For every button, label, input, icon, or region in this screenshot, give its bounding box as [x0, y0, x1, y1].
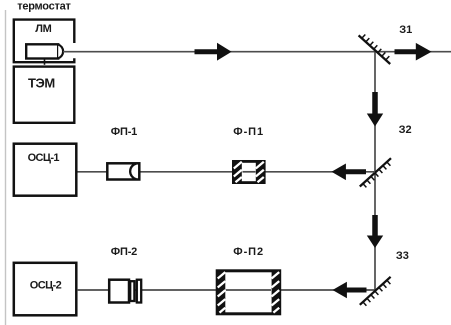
wire beam row1 horizontal [63, 51, 451, 53]
photodetector FP-2 right element [137, 280, 141, 303]
beam arrow down 2 [372, 215, 378, 236]
photodetector FP-2 mid element [130, 281, 134, 301]
interferometer F-P1 body [233, 161, 264, 182]
svg-text:ФП-2: ФП-2 [111, 246, 137, 258]
laser diode body [26, 44, 58, 58]
svg-text:ТЭМ: ТЭМ [28, 76, 55, 91]
svg-text:ОСЦ-2: ОСЦ-2 [30, 279, 62, 291]
svg-text:З2: З2 [399, 124, 412, 136]
beam arrow down 1 [372, 92, 378, 114]
interferometer F-P2 left mirror hatched [218, 271, 226, 313]
laser diode lens cap [58, 45, 63, 59]
svg-text:Ф-П1: Ф-П1 [233, 126, 264, 138]
photodetector FP-2 body [109, 280, 129, 303]
mirror Z3 [360, 277, 391, 306]
photodetector FP-1 lens arc [130, 164, 136, 180]
svg-text:ОСЦ-1: ОСЦ-1 [28, 152, 60, 164]
svg-text:З3: З3 [396, 250, 409, 262]
wire beam vertical [374, 52, 376, 290]
beam arrow left row2 [346, 169, 367, 174]
svg-text:ЛМ: ЛМ [35, 23, 51, 35]
interferometer F-P2 body [217, 271, 280, 314]
wire beam row2 horizontal [77, 171, 375, 173]
scan artifact faint vertical line [5, 10, 7, 325]
wire beam segment through F-P1 [243, 171, 256, 173]
box TEM [14, 67, 75, 123]
beam arrow mid row1 [195, 49, 219, 54]
svg-text:ФП-1: ФП-1 [111, 126, 137, 138]
box OSC-2 [14, 263, 77, 316]
svg-text:термостат: термостат [17, 0, 71, 12]
tick diode to box [44, 59, 46, 65]
wire beam row3 horizontal [77, 289, 375, 291]
svg-text:З1: З1 [399, 24, 412, 36]
box OSC-1 [14, 144, 77, 196]
beam arrow right of Z1 [395, 49, 417, 54]
wire beam segment through F-P2 [226, 289, 271, 291]
box LM (laser module enclosure with gap in right wall) [14, 20, 75, 63]
photodetector FP-1 body [107, 163, 139, 179]
interferometer F-P1 right mirror hatched [256, 162, 264, 182]
beam arrow left row3 [347, 288, 367, 293]
mirror Z2 [360, 158, 391, 187]
svg-text:Ф-П2: Ф-П2 [233, 246, 264, 258]
interferometer F-P1 left mirror hatched [234, 162, 242, 182]
mirror Z1 [359, 35, 391, 65]
interferometer F-P2 right mirror hatched [272, 271, 280, 313]
